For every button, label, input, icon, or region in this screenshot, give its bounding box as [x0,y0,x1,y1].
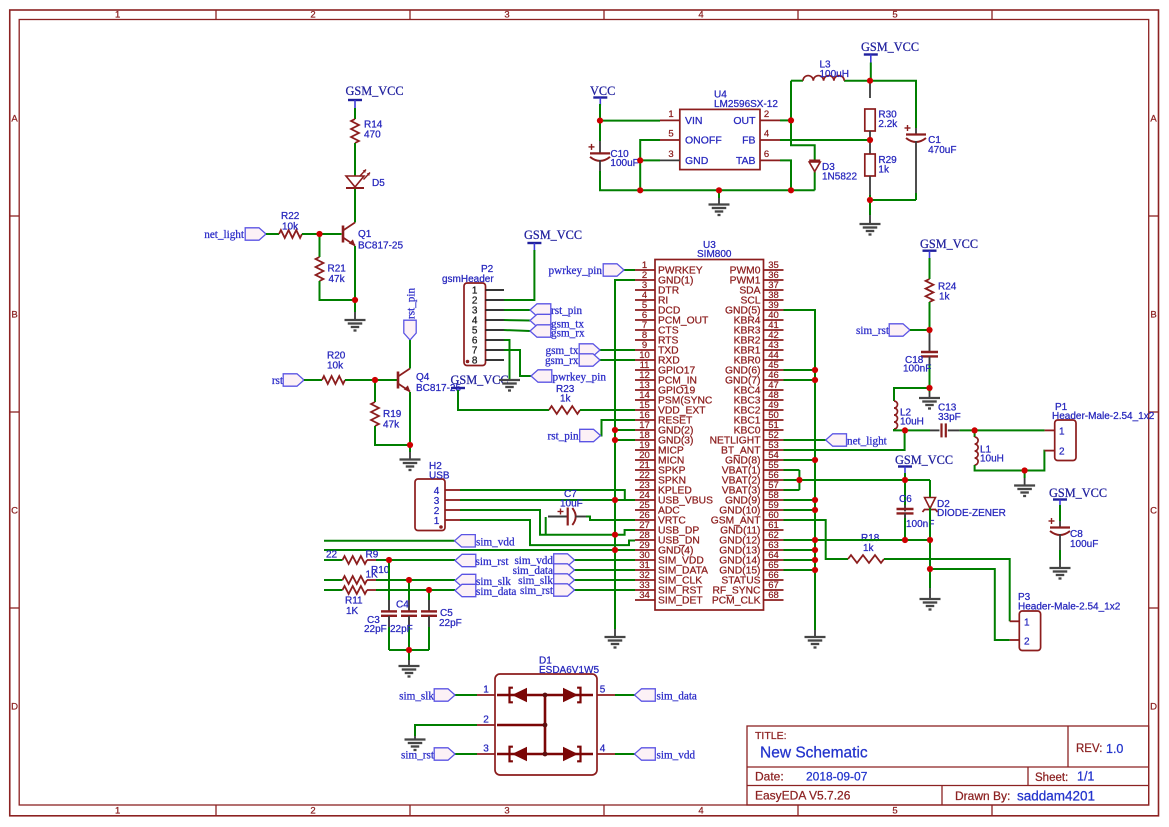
svg-text:22pF: 22pF [439,618,462,629]
svg-text:New Schematic: New Schematic [760,745,868,762]
svg-text:SIM800: SIM800 [697,249,732,260]
svg-text:R22: R22 [281,211,300,222]
svg-text:TAB: TAB [736,155,756,167]
svg-text:FB: FB [742,135,755,147]
svg-text:2.2k: 2.2k [878,119,898,130]
svg-text:D5: D5 [372,178,385,189]
svg-text:GSM_VCC: GSM_VCC [895,453,953,467]
svg-text:Q1: Q1 [358,229,372,240]
svg-text:2: 2 [310,806,315,817]
svg-text:100uF: 100uF [610,158,638,169]
svg-text:Drawn By:: Drawn By: [955,789,1010,803]
svg-text:Header-Male-2.54_1x2: Header-Male-2.54_1x2 [1052,411,1155,422]
svg-text:SIM_DET: SIM_DET [658,596,703,607]
svg-text:3: 3 [504,806,509,817]
svg-text:gsmHeader: gsmHeader [442,274,494,285]
svg-text:BC817-25: BC817-25 [358,241,403,252]
svg-text:4: 4 [764,129,769,140]
svg-text:sim_vdd: sim_vdd [476,536,515,548]
svg-text:USB: USB [429,471,450,482]
svg-text:1: 1 [1024,618,1030,629]
svg-text:C: C [1150,506,1157,517]
svg-text:pwrkey_pin: pwrkey_pin [549,265,603,277]
svg-text:sim_data: sim_data [476,586,516,598]
svg-text:sim_slk: sim_slk [399,691,434,703]
svg-text:rst_pin: rst_pin [406,288,418,319]
svg-text:22pF: 22pF [364,624,387,635]
svg-text:5: 5 [600,685,606,696]
svg-text:1.0: 1.0 [1106,742,1123,756]
svg-text:1K: 1K [366,570,379,581]
svg-text:5: 5 [892,9,897,20]
svg-text:R19: R19 [383,409,402,420]
svg-text:1: 1 [668,109,673,120]
svg-text:R11: R11 [345,596,363,607]
svg-text:GSM_VCC: GSM_VCC [861,40,919,54]
svg-text:34: 34 [639,590,650,601]
svg-text:pwrkey_pin: pwrkey_pin [553,371,607,383]
svg-text:sim_rst: sim_rst [401,750,435,762]
svg-text:1: 1 [483,685,489,696]
svg-text:8: 8 [472,356,478,367]
svg-text:VCC: VCC [590,84,615,98]
svg-text:A: A [1150,114,1157,125]
svg-text:PCM_CLK: PCM_CLK [712,596,761,607]
svg-text:sim_rst: sim_rst [856,325,890,337]
svg-text:33pF: 33pF [938,412,961,423]
svg-text:1: 1 [1059,426,1065,437]
svg-text:100uF: 100uF [1070,539,1098,550]
svg-text:5: 5 [892,806,897,817]
svg-text:3: 3 [504,9,509,20]
svg-text:R21: R21 [328,264,347,275]
svg-text:1: 1 [434,516,440,527]
svg-text:2018-09-07: 2018-09-07 [806,770,868,784]
svg-text:GSM_VCC: GSM_VCC [524,228,582,242]
svg-text:3: 3 [668,149,673,160]
svg-text:GSM_VCC: GSM_VCC [346,84,404,98]
svg-text:GSM_VCC: GSM_VCC [920,237,978,251]
svg-text:22pF: 22pF [390,624,413,635]
svg-text:ONOFF: ONOFF [685,135,722,147]
svg-text:A: A [11,114,18,125]
svg-text:3: 3 [483,744,489,755]
svg-text:47k: 47k [329,274,346,285]
svg-text:GSM_VCC: GSM_VCC [1049,486,1107,500]
svg-text:1/1: 1/1 [1077,770,1094,784]
svg-text:470: 470 [364,130,381,141]
svg-text:4: 4 [698,9,703,20]
svg-text:100nF: 100nF [903,364,931,375]
svg-text:Date:: Date: [755,770,784,784]
svg-text:TITLE:: TITLE: [755,730,787,742]
svg-text:10k: 10k [282,222,299,233]
svg-text:1k: 1k [878,165,890,176]
svg-text:REV:: REV: [1076,743,1102,755]
svg-text:C6: C6 [899,494,912,505]
svg-text:10uH: 10uH [900,417,924,428]
svg-text:EasyEDA V5.7.26: EasyEDA V5.7.26 [755,789,851,803]
svg-text:2: 2 [483,715,489,726]
svg-text:22: 22 [326,550,338,561]
svg-text:OUT: OUT [733,115,756,127]
svg-text:2: 2 [764,109,769,120]
svg-text:Sheet:: Sheet: [1035,772,1068,784]
svg-text:saddam4201: saddam4201 [1017,789,1095,804]
svg-text:47k: 47k [383,420,400,431]
svg-text:D: D [1150,702,1157,713]
svg-text:Header-Male-2.54_1x2: Header-Male-2.54_1x2 [1018,602,1121,613]
svg-text:B: B [1150,310,1156,321]
svg-text:100uH: 100uH [820,69,849,80]
svg-text:gsm_rx: gsm_rx [551,328,585,340]
svg-text:4: 4 [698,806,703,817]
svg-text:10uF: 10uF [560,499,583,510]
svg-text:gsm_rx: gsm_rx [545,355,579,367]
svg-text:net_light: net_light [204,229,245,241]
svg-text:B: B [11,310,17,321]
svg-text:68: 68 [768,590,779,601]
svg-text:1N5822: 1N5822 [822,172,857,183]
svg-text:R9: R9 [366,550,379,561]
svg-text:VIN: VIN [685,115,703,127]
svg-text:GND: GND [685,155,709,167]
svg-text:1: 1 [115,9,120,20]
svg-text:sim_data: sim_data [657,691,697,703]
svg-text:6: 6 [764,149,769,160]
svg-text:Q4: Q4 [416,372,430,383]
svg-text:2: 2 [310,9,315,20]
svg-text:sim_vdd: sim_vdd [657,750,696,762]
svg-text:sim_rst: sim_rst [520,585,554,597]
svg-text:rst_pin: rst_pin [548,431,579,443]
svg-text:rst: rst [272,375,284,387]
svg-text:1k: 1k [560,394,572,405]
svg-text:1k: 1k [939,292,951,303]
svg-text:10uH: 10uH [980,454,1004,465]
svg-text:2: 2 [1059,447,1065,458]
svg-text:ESDA6V1W5: ESDA6V1W5 [539,665,599,676]
svg-text:D: D [11,702,18,713]
svg-text:1: 1 [115,806,120,817]
svg-text:4: 4 [600,744,606,755]
svg-text:1K: 1K [346,606,359,617]
svg-text:sim_rst: sim_rst [476,556,510,568]
svg-text:net_light: net_light [847,435,888,447]
svg-text:C4: C4 [396,600,409,611]
svg-text:10k: 10k [327,361,344,372]
svg-text:DIODE-ZENER: DIODE-ZENER [937,508,1006,519]
svg-text:470uF: 470uF [928,145,956,156]
svg-text:C: C [11,506,18,517]
svg-text:rst_pin: rst_pin [551,305,582,317]
svg-text:2: 2 [1024,636,1030,647]
svg-text:5: 5 [668,129,673,140]
svg-text:1k: 1k [863,543,875,554]
